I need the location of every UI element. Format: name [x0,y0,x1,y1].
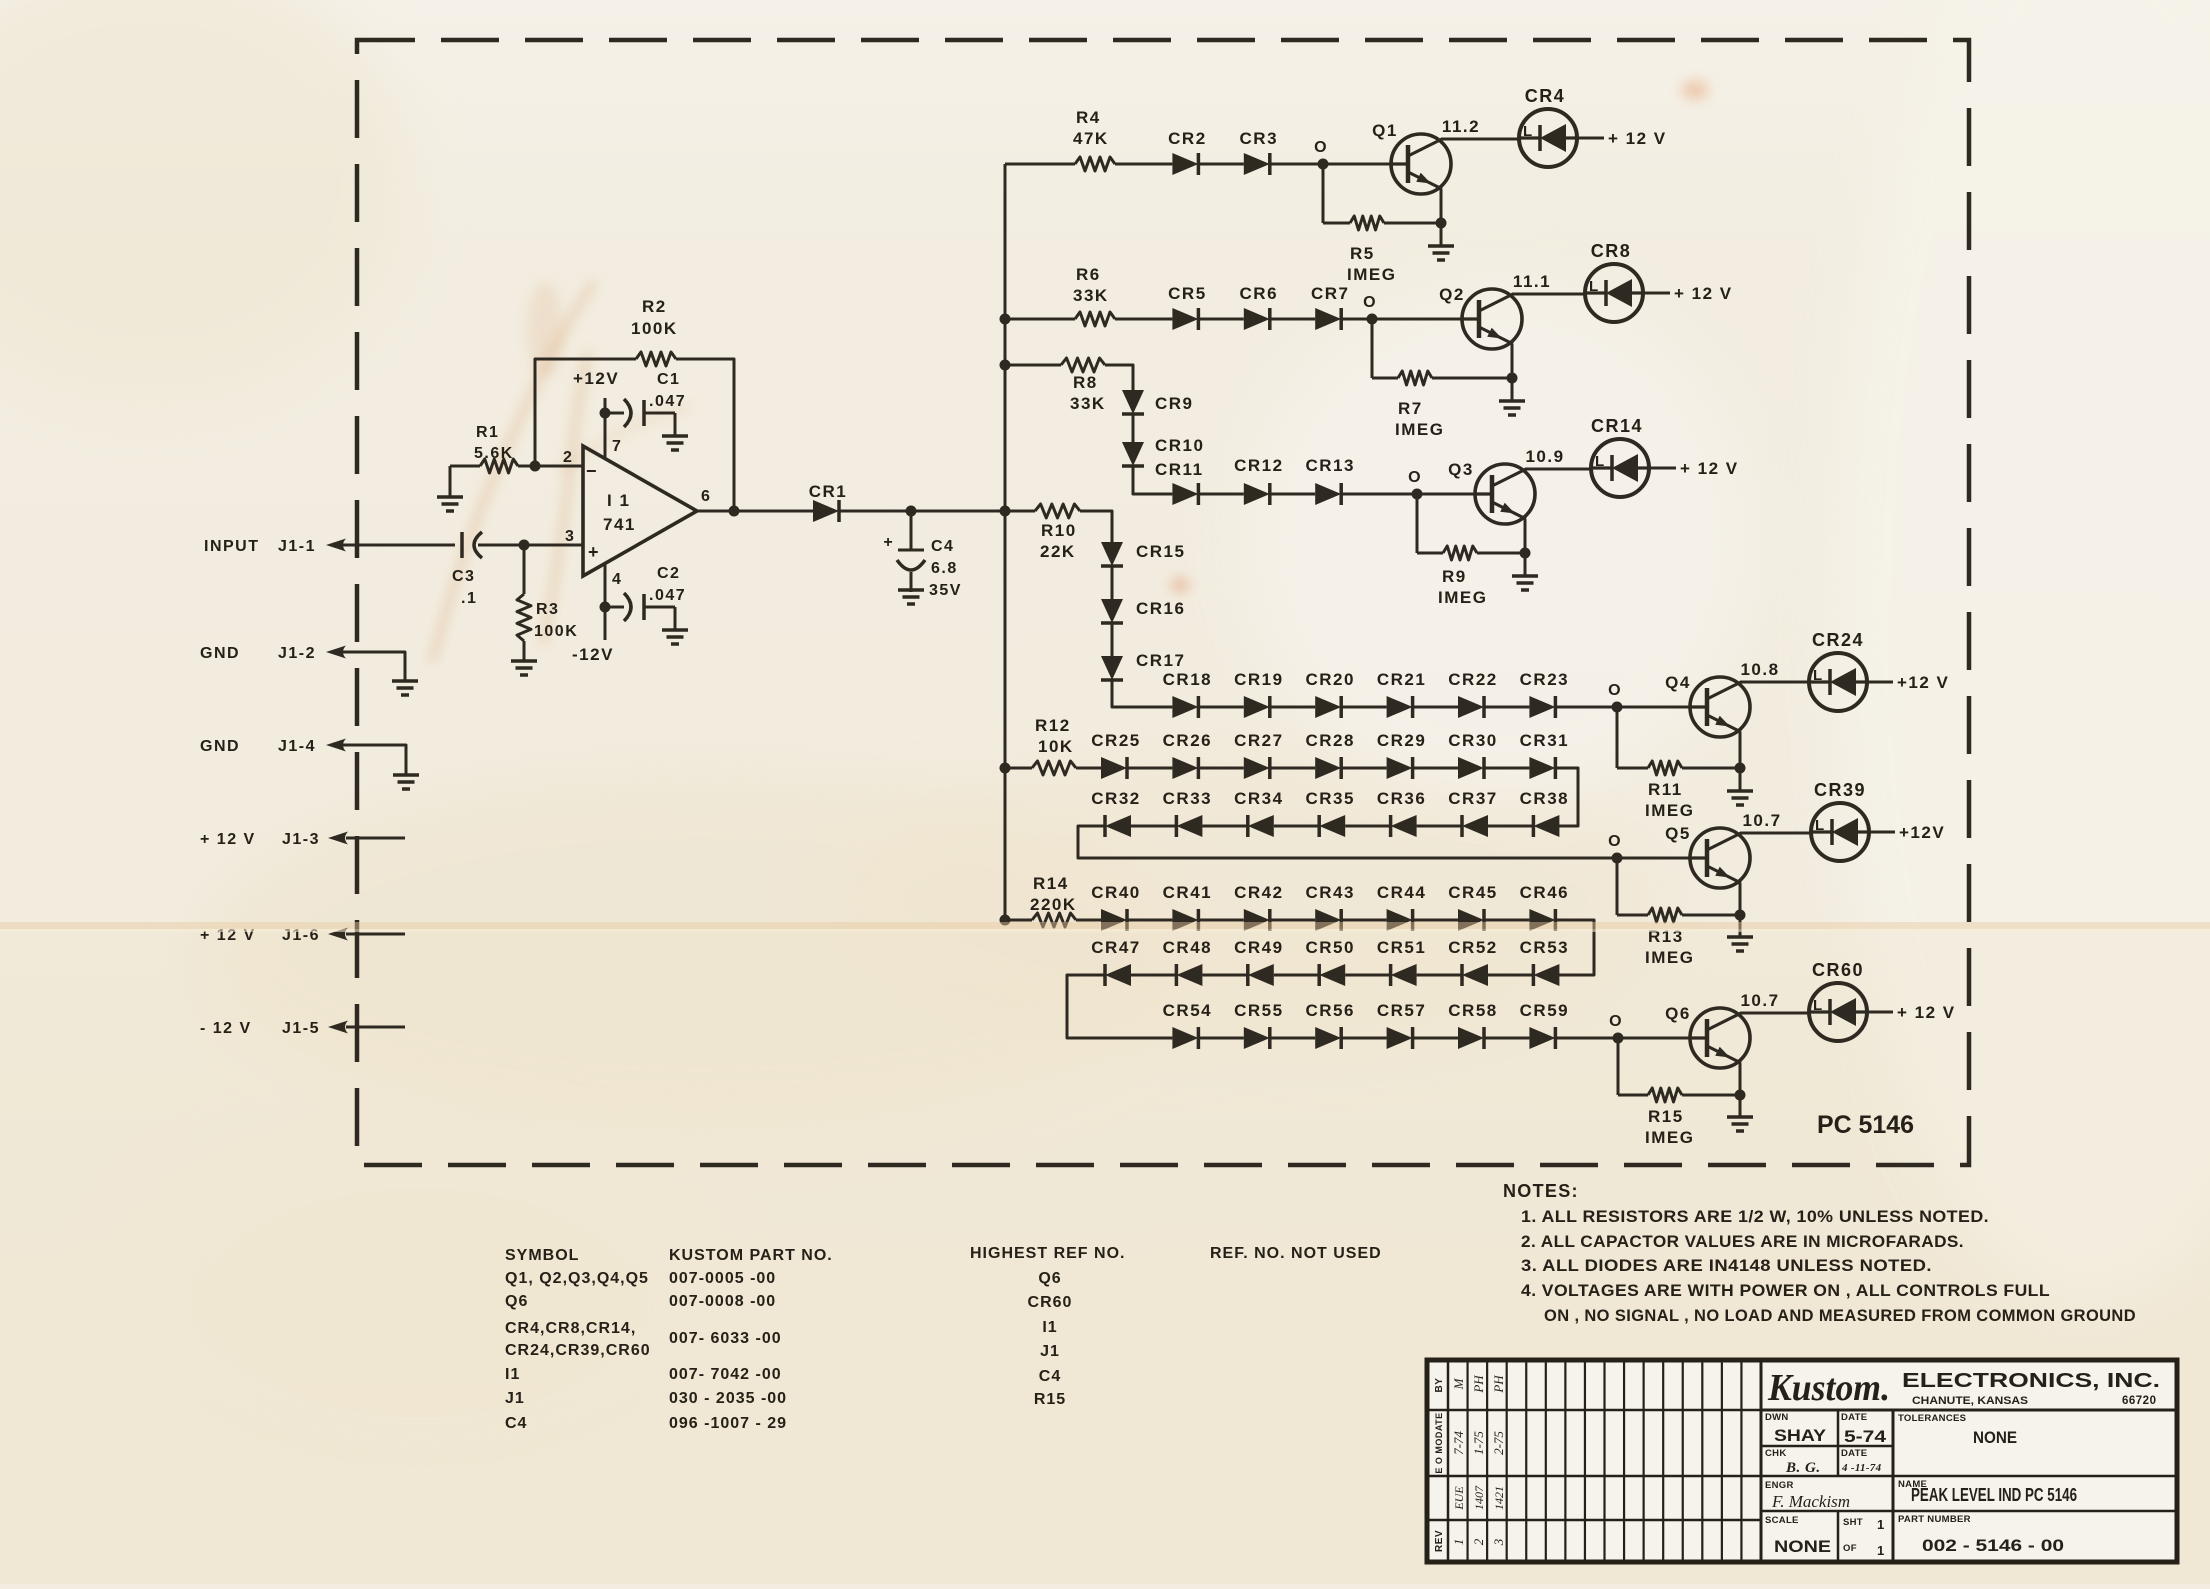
svg-text:10.7: 10.7 [1740,991,1779,1010]
diode CR35 [1305,789,1354,837]
voltage 11.1 [1513,272,1551,291]
diode CR5 [1168,284,1207,330]
wire CR55 onward [1270,1037,1315,1040]
diode CR20 [1305,670,1354,718]
svg-text:IMEG: IMEG [1395,420,1444,439]
+12V label row1 [1608,129,1667,148]
voltage 10.8 [1740,660,1779,679]
wire R14 to CR40 [1076,919,1101,922]
wire J1-5 [346,1026,405,1029]
svg-text:CR52: CR52 [1448,938,1497,957]
wire node O down (Q3) [1416,494,1419,553]
wire CR49 onward [1202,974,1247,977]
svg-text:CR42: CR42 [1234,883,1283,902]
ground Q4 emitter [1727,768,1753,805]
svg-text:CR4,CR8,CR14,: CR4,CR8,CR14, [505,1320,636,1337]
wire CR30 onward [1484,767,1529,770]
svg-text:CR18: CR18 [1163,670,1212,689]
svg-text:R8: R8 [1073,373,1098,392]
svg-text:Q6: Q6 [505,1293,528,1310]
svg-text:+ 12 V: + 12 V [1897,1003,1956,1022]
svg-text:O: O [1314,139,1328,156]
svg-text:J1: J1 [1040,1343,1060,1360]
wire to Q6 base [1613,1033,1691,1044]
+12V label row5 [1899,823,1945,842]
svg-text:CR6: CR6 [1240,284,1279,303]
diode CR56 [1305,1001,1354,1049]
diode CR51 [1377,938,1426,986]
wire CR7 to Q2 [1341,314,1462,325]
arrow J1-2 [326,646,346,659]
wire CR45 onward [1484,919,1529,922]
diode CR36 [1377,789,1426,837]
svg-text:10.7: 10.7 [1742,811,1781,830]
wire CR15 to CR16 [1111,566,1114,599]
svg-text:CR21: CR21 [1377,670,1426,689]
svg-text:CR24: CR24 [1812,630,1864,650]
wire J1-1 to C3 [343,544,455,547]
wire CR8 to +12V [1643,292,1670,295]
svg-text:C4: C4 [505,1415,527,1432]
wire CR40 onward [1127,919,1172,922]
ref no. not used heading [1210,1245,1382,1262]
wire CR22 onward [1484,706,1529,709]
transistor Q1 [1372,121,1451,194]
wire CR3 to Q1 [1270,159,1391,170]
svg-text:CR25: CR25 [1091,731,1140,750]
diode CR12 [1234,456,1283,505]
svg-text:C1: C1 [657,371,680,388]
resistor R12 [1005,716,1076,775]
transistor Q3 [1448,460,1535,524]
svg-text:6: 6 [701,488,711,505]
svg-text:CR1: CR1 [809,482,848,501]
diode CR43 [1305,883,1354,931]
resistor R1 [450,424,535,473]
svg-text:O: O [1608,833,1622,850]
diode CR45 [1448,883,1497,931]
svg-text:+12V: +12V [1899,823,1945,842]
svg-text:1. ALL RESISTORS ARE 1/2 W,: 1. ALL RESISTORS ARE 1/2 W, 10% UNLESS N… [1521,1208,1989,1226]
wire C4 node to bus [911,510,1005,513]
svg-text:1-75: 1-75 [1471,1431,1486,1455]
svg-text:IMEG: IMEG [1438,588,1487,607]
highest ref no. list [970,1245,1125,1408]
svg-text:CR15: CR15 [1136,542,1185,561]
diode CR34 [1234,789,1283,837]
svg-text:M: M [1451,1377,1466,1390]
svg-text:10.9: 10.9 [1525,447,1564,466]
svg-text:4 -11-74: 4 -11-74 [1841,1462,1882,1474]
ground below C1 [662,413,688,450]
diode CR37 [1448,789,1497,837]
svg-text:Q6: Q6 [1665,1004,1691,1023]
wire CR36 onward [1345,825,1390,828]
resistor R10 [1005,504,1080,561]
voltage 10.7 (Q5) [1742,811,1781,830]
svg-text:CR7: CR7 [1311,284,1350,303]
svg-text:+12V: +12V [573,369,619,388]
svg-text:CR5: CR5 [1168,284,1207,303]
svg-text:66720: 66720 [2122,1395,2156,1407]
svg-text:R1: R1 [476,424,499,441]
capacitor C4 (electrolytic) [883,511,962,599]
wire Q6 emitter [1735,1063,1746,1101]
wire pin2 [530,461,584,472]
gnd connector J1-2 label [200,645,316,662]
wire CR59 onward [1555,1037,1618,1040]
diode CR11 [1155,460,1204,505]
svg-text:.047: .047 [649,393,686,410]
svg-text:CR43: CR43 [1305,883,1354,902]
svg-text:1407: 1407 [1472,1485,1486,1510]
LED CR24 [1809,630,1867,711]
svg-text:5.6K: 5.6K [474,445,514,462]
svg-text:2: 2 [563,449,573,466]
wire CR51 onward [1345,974,1390,977]
capacitor C2 [605,565,686,621]
svg-text:C2: C2 [657,565,680,582]
svg-text:CR60: CR60 [1812,960,1864,980]
diode CR25 [1091,731,1140,779]
svg-text:R15: R15 [1648,1107,1684,1126]
ground Q5 emitter [1727,915,1753,951]
svg-text:CR56: CR56 [1305,1001,1354,1020]
svg-text:47K: 47K [1073,129,1109,148]
diode CR47 [1091,938,1140,986]
wire J1-6 [346,933,405,936]
svg-text:CR14: CR14 [1591,416,1643,436]
ground Q6 emitter [1727,1095,1753,1131]
wire CR13 to Q3 [1341,489,1475,500]
arrow J1-5 [328,1021,348,1034]
diode CR1 [809,482,848,522]
wire CR2 to CR3 [1198,163,1243,166]
wire node O down (Q6) [1617,1038,1620,1095]
svg-text:−: − [586,461,597,481]
svg-text:2: 2 [1471,1538,1486,1545]
svg-text:1421: 1421 [1492,1486,1506,1510]
svg-text:22K: 22K [1040,542,1076,561]
svg-text:Q6: Q6 [1038,1270,1061,1287]
+12V label row4 [1897,673,1949,692]
pin 7 label [612,438,622,455]
wire CR38 onward [1488,825,1533,828]
transistor Q5 [1665,824,1750,888]
resistor R8 [1061,358,1106,413]
svg-text:NONE: NONE [1774,1537,1831,1556]
wire Q6 collector to CR60 [1740,1012,1809,1015]
svg-text:+: + [588,542,599,562]
Kustom Electronics logo block [1767,1367,2160,1409]
node O label Q4 [1608,682,1622,699]
svg-text:PC 5146: PC 5146 [1817,1111,1914,1139]
svg-text:F. Mackism: F. Mackism [1771,1492,1850,1511]
svg-text:O: O [1363,294,1377,311]
svg-text:ON , NO SIGNAL , NO LOAD AND: ON , NO SIGNAL , NO LOAD AND MEASURED FR… [1544,1307,2136,1325]
svg-text:J1-3: J1-3 [282,831,320,848]
resistor R15 [1618,1088,1740,1147]
svg-text:CR34: CR34 [1234,789,1283,808]
wire CR27 onward [1270,767,1315,770]
svg-text:PART NUMBER: PART NUMBER [1898,1514,1971,1525]
arrow J1-3 [328,832,348,845]
svg-text:7: 7 [612,438,622,455]
svg-text:CR11: CR11 [1155,460,1204,479]
wire R8 to CR9 chain [1105,365,1133,390]
svg-text:CR16: CR16 [1136,599,1185,618]
svg-text:R9: R9 [1442,567,1467,586]
voltage 10.7 (Q6) [1740,991,1779,1010]
wire CR48 onward [1131,974,1176,977]
svg-text:1: 1 [1877,1517,1885,1532]
diode CR42 [1234,883,1283,931]
voltage 10.9 [1525,447,1564,466]
wire CR50 onward [1274,974,1319,977]
svg-text:1: 1 [1877,1543,1885,1558]
svg-text:Q2: Q2 [1439,285,1465,304]
wire R6 to CR5 [1115,318,1172,321]
svg-text:CR28: CR28 [1305,731,1354,750]
svg-text:R3: R3 [536,601,559,618]
svg-text:SHAY: SHAY [1774,1426,1827,1445]
arrow J1-6 [328,928,348,941]
wire CR46 to return row [1555,920,1594,975]
node O label Q2 [1363,294,1377,311]
svg-text:10.8: 10.8 [1740,660,1779,679]
svg-text:J1-4: J1-4 [278,738,316,755]
wire CR29 onward [1413,767,1458,770]
vertical bus wire [1000,164,1011,926]
ground below R1 [437,466,463,511]
diode CR52 [1448,938,1497,986]
svg-text:EUE: EUE [1452,1486,1466,1511]
svg-text:R2: R2 [642,297,667,316]
diode CR21 [1377,670,1426,718]
diode CR2 [1168,129,1207,175]
diode CR27 [1234,731,1283,779]
svg-text:CR60: CR60 [1028,1294,1073,1311]
parts list (symbol / part no.) [505,1247,833,1432]
diode CR31 [1520,731,1569,779]
svg-text:CR47: CR47 [1091,938,1140,957]
svg-text:J1: J1 [505,1390,525,1407]
wire op-amp output to CR1 [697,506,813,517]
svg-text:Q1: Q1 [1372,121,1398,140]
diode CR55 [1234,1001,1283,1049]
svg-text:CR55: CR55 [1234,1001,1283,1020]
ground below C2 [662,607,688,644]
diode CR19 [1234,670,1283,718]
transistor Q4 [1665,673,1750,737]
title block texts [1765,1412,2077,1558]
diode CR40 [1091,883,1140,931]
svg-text:CR59: CR59 [1520,1001,1569,1020]
svg-text:R6: R6 [1076,265,1101,284]
diode CR17 [1101,651,1185,680]
horizontal fold crease (decorative) [0,922,2210,932]
svg-text:CR2: CR2 [1168,129,1207,148]
ground below C4 [898,590,924,604]
svg-text:007-0008 -00: 007-0008 -00 [669,1293,776,1310]
resistor R13 [1617,908,1740,967]
wire R12 to CR25 [1076,767,1101,770]
svg-text:CR19: CR19 [1234,670,1283,689]
svg-text:R12: R12 [1035,716,1071,735]
ground Q3 emitter [1512,553,1538,590]
diode CR32 [1091,789,1140,837]
svg-text:IMEG: IMEG [1645,948,1694,967]
svg-text:100K: 100K [534,623,578,640]
diode CR46 [1520,883,1569,931]
svg-text:GND: GND [200,738,240,755]
capacitor C3 [452,532,482,607]
diode CR59 [1520,1001,1569,1049]
svg-text:CR51: CR51 [1377,938,1426,957]
feedback wire from R2 to output [676,359,734,511]
node O label Q6 [1609,1013,1623,1030]
+12V connector J1-3 label [200,831,320,848]
svg-text:CHANUTE, KANSAS: CHANUTE, KANSAS [1912,1395,2028,1407]
svg-text:002 - 5146 - 00: 002 - 5146 - 00 [1922,1536,2064,1555]
diode CR13 [1305,456,1354,505]
svg-text:CR20: CR20 [1305,670,1354,689]
wire Q2 collector to CR8 [1512,293,1585,296]
svg-text:E O MODATE: E O MODATE [1434,1412,1444,1473]
resistor R9 [1417,546,1525,607]
wire CR16 to CR17 [1111,623,1114,656]
gnd connector J1-4 label [200,738,316,755]
ground Q2 emitter [1499,378,1525,415]
svg-text:CR46: CR46 [1520,883,1569,902]
svg-text:2. ALL CAPACTOR VALUES ARE: 2. ALL CAPACTOR VALUES ARE IN MICROFARAD… [1521,1233,1964,1251]
wire CR47 to Q6 row [1067,975,1172,1038]
svg-text:Q3: Q3 [1448,460,1474,479]
wire CR53 onward [1488,974,1533,977]
svg-text:HIGHEST REF NO.: HIGHEST REF NO. [970,1245,1125,1262]
svg-text:CR13: CR13 [1305,456,1354,475]
wire CR34 onward [1202,825,1247,828]
wire CR44 onward [1413,919,1458,922]
+12V label row2 [1674,284,1733,303]
dashed schematic boundary (board outline PC 5146) [357,40,1969,1165]
wire Q5 emitter [1735,883,1746,921]
svg-text:CR30: CR30 [1448,731,1497,750]
title block frame and revision grid [1427,1360,2177,1562]
ground Q1 emitter [1428,223,1454,260]
svg-text:CR26: CR26 [1163,731,1212,750]
diode CR33 [1163,789,1212,837]
svg-text:CR22: CR22 [1448,670,1497,689]
wire node O down (Q2) [1371,319,1374,378]
svg-text:100K: 100K [631,319,678,338]
svg-text:CR17: CR17 [1136,651,1185,670]
svg-text:BY: BY [1434,1378,1445,1393]
diode CR58 [1448,1001,1497,1049]
wire R10 to CR15 chain [1080,511,1112,542]
wire CR56 onward [1341,1037,1386,1040]
diode CR22 [1448,670,1497,718]
svg-text:IMEG: IMEG [1645,1128,1694,1147]
svg-text:J1-2: J1-2 [278,645,316,662]
wire J1-3 [346,837,405,840]
wire CR21 onward [1413,706,1458,709]
svg-text:3: 3 [1491,1538,1506,1546]
svg-text:CR27: CR27 [1234,731,1283,750]
svg-text:3: 3 [565,528,575,545]
svg-text:OF: OF [1843,1543,1857,1554]
resistor R3 [517,545,578,661]
svg-text:CR32: CR32 [1091,789,1140,808]
svg-text:- 12 V: - 12 V [200,1020,252,1037]
wire CR11 to CR12 [1198,493,1243,496]
voltage 11.2 [1442,117,1480,136]
svg-text:Q5: Q5 [1665,824,1691,843]
diode CR26 [1163,731,1212,779]
LED CR39 [1811,780,1869,861]
diode CR53 [1520,938,1569,986]
wire CR52 onward [1417,974,1462,977]
diode CR7 [1311,284,1350,330]
svg-text:I1: I1 [1042,1319,1057,1336]
svg-text:4: 4 [612,571,622,588]
wire J1-4 [343,745,406,775]
svg-text:4. VOLTAGES ARE WITH POWER: 4. VOLTAGES ARE WITH POWER ON , ALL CONT… [1521,1282,2050,1300]
svg-text:CR54: CR54 [1163,1001,1212,1020]
LED CR4 [1519,86,1577,167]
wire node O down (Q4) [1616,707,1619,768]
+12V label row6 [1897,1003,1956,1022]
svg-text:CR45: CR45 [1448,883,1497,902]
wire CR54 onward [1198,1037,1243,1040]
ground J1-4 [393,775,419,789]
capacitor C1 [605,371,686,427]
resistor R14 [1005,874,1077,927]
wire row1 from bus [1005,163,1075,166]
svg-text:CR10: CR10 [1155,436,1204,455]
title block inner dividers [1761,1410,2177,1562]
resistor R5 [1323,216,1441,284]
LED CR14 [1591,416,1649,497]
svg-text:J1-1: J1-1 [278,538,316,555]
wire Q1 emitter [1436,189,1447,229]
svg-text:+12 V: +12 V [1897,673,1949,692]
wire CR10 to row3 [1133,466,1172,494]
wire CR14 to +12V [1649,467,1676,470]
svg-text:ELECTRONICS, INC.: ELECTRONICS, INC. [1902,1370,2160,1392]
svg-text:CR37: CR37 [1448,789,1497,808]
svg-text:CR49: CR49 [1234,938,1283,957]
svg-text:CR39: CR39 [1814,780,1866,800]
diode CR9 [1122,390,1194,414]
svg-text:33K: 33K [1070,394,1106,413]
wire CR57 onward [1413,1037,1458,1040]
svg-text:+ 12 V: + 12 V [1674,284,1733,303]
ground J1-2 [392,681,418,695]
svg-text:CR48: CR48 [1163,938,1212,957]
svg-text:O: O [1608,682,1622,699]
svg-text:C4: C4 [931,538,954,555]
svg-text:L: L [1589,278,1598,295]
wire CR60 to +12V [1867,1011,1893,1014]
diode CR57 [1377,1001,1426,1049]
svg-text:CR29: CR29 [1377,731,1426,750]
svg-text:GND: GND [200,645,240,662]
svg-text:007- 7042 -00: 007- 7042 -00 [669,1366,782,1383]
diode CR6 [1240,284,1279,330]
wire CR19 onward [1270,706,1315,709]
op-amp I1 741 [583,446,697,576]
